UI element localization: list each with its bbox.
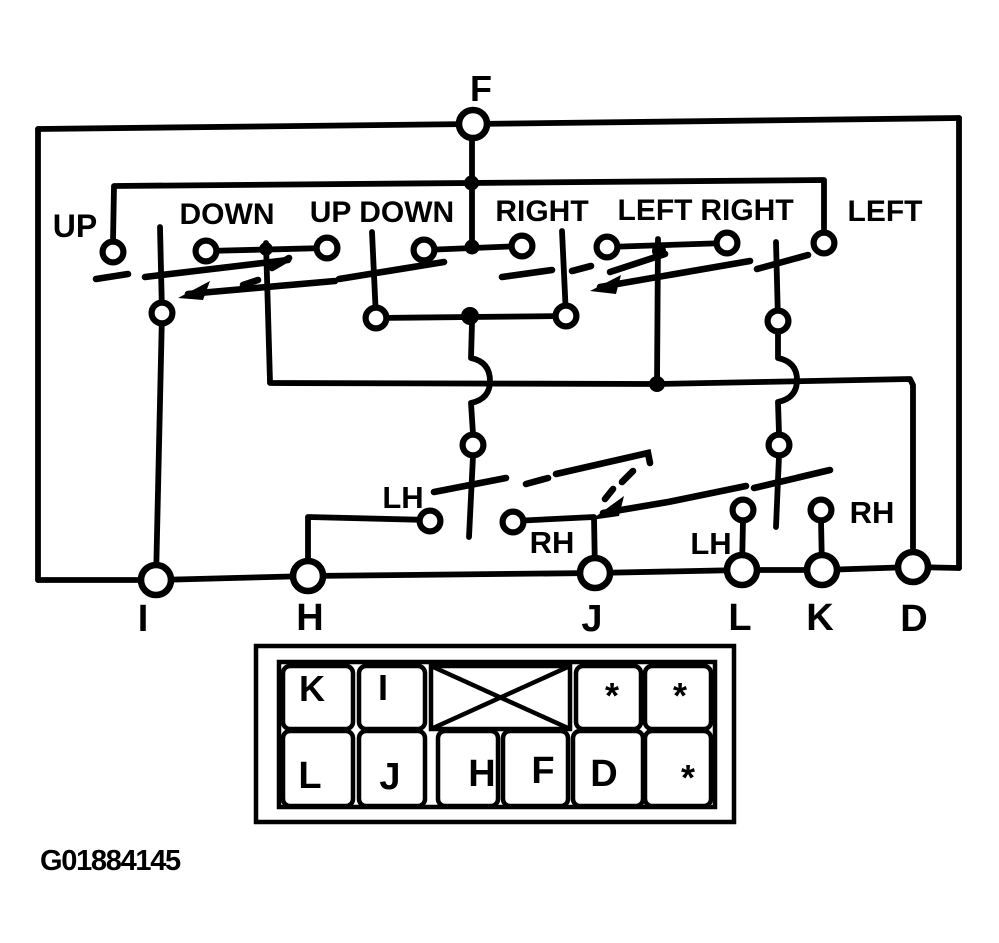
svg-text:L: L (298, 755, 321, 797)
svg-text:D: D (900, 598, 927, 640)
connector cell F (503, 731, 568, 806)
terminal D (898, 552, 928, 582)
wire: lower bus to terminal D (270, 379, 913, 567)
connector inner box (279, 662, 715, 807)
linkage lower arrow shaft (603, 486, 746, 513)
linkage lower dash 3 (622, 471, 633, 482)
wire: pole 2 (372, 232, 376, 318)
linkage stroke across pole 1 (145, 260, 288, 277)
connector cell star 2 (645, 666, 711, 729)
wire: DOWN switch bar (206, 248, 327, 251)
linkage lower dash 2 (526, 478, 548, 484)
svg-text:UP DOWN: UP DOWN (310, 196, 454, 229)
junction dot on lower bus (649, 376, 665, 392)
wire: center contact bar row 2 (376, 316, 566, 318)
connector X diagonal 2 (431, 666, 570, 729)
linkage lower arrowhead (591, 496, 624, 520)
svg-text:RIGHT: RIGHT (495, 195, 588, 228)
wire: RIGHT-LEFT junction drop to lower bus (657, 239, 658, 385)
svg-text:LEFT: LEFT (848, 195, 923, 228)
wire: switch box right border (956, 118, 962, 568)
linkage stroke left of pole 3 (502, 270, 552, 277)
linkage stroke across pole 2 (339, 262, 444, 279)
wire: RH contact to terminal J (513, 517, 595, 573)
wire: right pole stub below contact (776, 456, 779, 527)
terminal H (293, 561, 323, 591)
svg-text:RH: RH (850, 495, 895, 530)
contact UP DOWN left (414, 240, 435, 261)
junction dot row 2 center (461, 307, 479, 325)
connector X diagonal 1 (431, 666, 570, 729)
wire: RIGHT-LEFT switch bar (607, 243, 727, 247)
junction dot on RIGHT-LEFT bar (652, 244, 666, 258)
linkage small dash (243, 280, 258, 285)
svg-text:*: * (681, 757, 695, 798)
linkage hook (272, 258, 289, 268)
svg-text:H: H (468, 753, 495, 795)
svg-text:L: L (728, 597, 751, 639)
contact UP DOWN right (512, 236, 533, 257)
connector cell D (573, 731, 643, 806)
contact DOWN left (196, 241, 217, 262)
terminal J (580, 558, 610, 588)
wire: pole 1 to terminal I (156, 227, 162, 580)
svg-text:K: K (299, 668, 325, 709)
contact DOWN right (317, 238, 338, 259)
contact pole 4 (768, 311, 789, 332)
contact LEFT (814, 233, 835, 254)
terminal L (727, 555, 757, 585)
wire: pole 4 (776, 242, 778, 321)
wire: F feed vertical (469, 141, 475, 247)
wire: right drop with hop over bus (778, 332, 797, 434)
contact pole 3 (556, 306, 577, 327)
wire: LH contact stem terminal L (742, 519, 743, 570)
connector cell I (359, 666, 425, 729)
linkage arrow shaft right (600, 261, 750, 287)
svg-text:UP: UP (53, 208, 97, 244)
junction dot on DOWN bar (259, 242, 273, 256)
svg-text:J: J (581, 598, 602, 640)
svg-text:RH: RH (530, 525, 575, 560)
svg-text:DOWN: DOWN (180, 198, 275, 231)
svg-text:H: H (296, 597, 323, 639)
svg-text:D: D (590, 753, 617, 795)
linkage stroke across pole 4 (757, 255, 808, 269)
svg-text:LH: LH (382, 480, 423, 515)
contact center lower (463, 435, 484, 456)
wire: switch box left border (35, 129, 41, 580)
contact RH (503, 512, 524, 533)
svg-text:RIGHT: RIGHT (700, 194, 793, 227)
junction dot on UP DOWN bar (465, 240, 480, 255)
wire: switch box bottom border through terminals (38, 567, 959, 580)
wire: DOWN junction drop to lower bus (266, 243, 270, 382)
svg-text:G01884145: G01884145 (40, 845, 181, 877)
contact pole 2 (366, 308, 387, 329)
svg-text:F: F (531, 750, 554, 792)
svg-text:I: I (378, 667, 388, 708)
wire: center drop with hop over bus (471, 323, 490, 434)
svg-text:F: F (470, 68, 492, 109)
svg-text:LEFT: LEFT (618, 194, 693, 227)
connector cell J (359, 731, 425, 806)
wire: center pole stub below contact (469, 456, 473, 537)
wire: pole 3 (562, 231, 566, 316)
contact pole 1 (152, 303, 173, 324)
connector cell L (283, 731, 353, 806)
connector cell K (283, 666, 353, 729)
terminal K (807, 555, 837, 585)
linkage lower long stroke (556, 453, 650, 474)
connector cell H (438, 731, 498, 806)
linkage lower dash 4 (605, 489, 613, 499)
linkage lower dash 1 across center pole (434, 478, 506, 492)
wire: switch box top border (38, 118, 959, 129)
linkage dash left of UP (96, 274, 128, 279)
connector cell star 3 (645, 731, 711, 806)
linkage stroke under RIGHT contact (610, 254, 665, 272)
linkage lower stroke across right pole (754, 470, 830, 488)
linkage dash right of pole 3 (572, 266, 591, 271)
terminal F (459, 110, 487, 138)
linkage arrowhead right (590, 275, 621, 294)
contact LH (420, 511, 441, 532)
junction dot F line on inner bus (464, 176, 479, 191)
wire: LH contact to terminal H (308, 517, 429, 576)
wire: RH contact stem terminal K (821, 519, 822, 570)
connector cell star 1 (576, 666, 641, 729)
connector blanked cell with X (431, 666, 570, 729)
contact RIGHT right (717, 233, 738, 254)
contact right lower (769, 435, 790, 456)
contact RH above K (811, 500, 832, 521)
connector outer box (256, 646, 734, 822)
linkage arrowhead left (178, 281, 210, 300)
svg-text:*: * (673, 675, 687, 716)
svg-text:I: I (138, 598, 149, 640)
linkage arrow shaft left (188, 281, 335, 294)
wire: inner bus UP to LEFT (113, 180, 824, 241)
svg-text:J: J (379, 756, 400, 798)
contact RIGHT left (597, 237, 618, 258)
contact LH above L (733, 500, 754, 521)
terminal I (141, 565, 171, 595)
svg-text:LH: LH (690, 526, 731, 561)
wire: UP DOWN switch bar (424, 246, 522, 250)
svg-text:K: K (806, 597, 834, 639)
svg-text:*: * (605, 675, 619, 716)
contact UP (103, 242, 124, 263)
